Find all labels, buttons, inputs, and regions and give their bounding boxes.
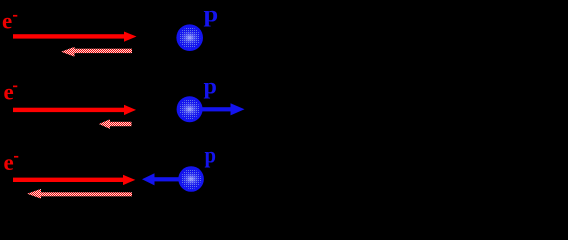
row 2: proton recoil arrow (blue, right)	[202, 107, 231, 111]
row 3: reflected electron arrow (dithered pink, left)	[40, 192, 132, 196]
row 3: proton recoil arrow (blue, left)	[154, 177, 181, 181]
row 1: reflected electron arrow (dithered pink, left)	[74, 49, 133, 53]
svg-text:e: e	[4, 80, 14, 105]
svg-text:p: p	[205, 143, 217, 168]
row 2: incident electron arrow (red, right)	[13, 108, 125, 112]
svg-text:p: p	[204, 74, 217, 99]
row 1: proton ball	[176, 24, 203, 51]
svg-text:e: e	[4, 150, 14, 175]
row 3: proton ball	[178, 166, 204, 192]
row 3: incident electron arrow (red, right)	[13, 178, 124, 182]
row 2: proton ball	[177, 96, 203, 122]
svg-text:p: p	[204, 2, 219, 27]
row 2: reflected electron arrow (dithered pink, left)	[109, 122, 132, 126]
svg-text:e: e	[2, 9, 12, 34]
row 1: incident electron arrow (red, right)	[13, 34, 125, 38]
